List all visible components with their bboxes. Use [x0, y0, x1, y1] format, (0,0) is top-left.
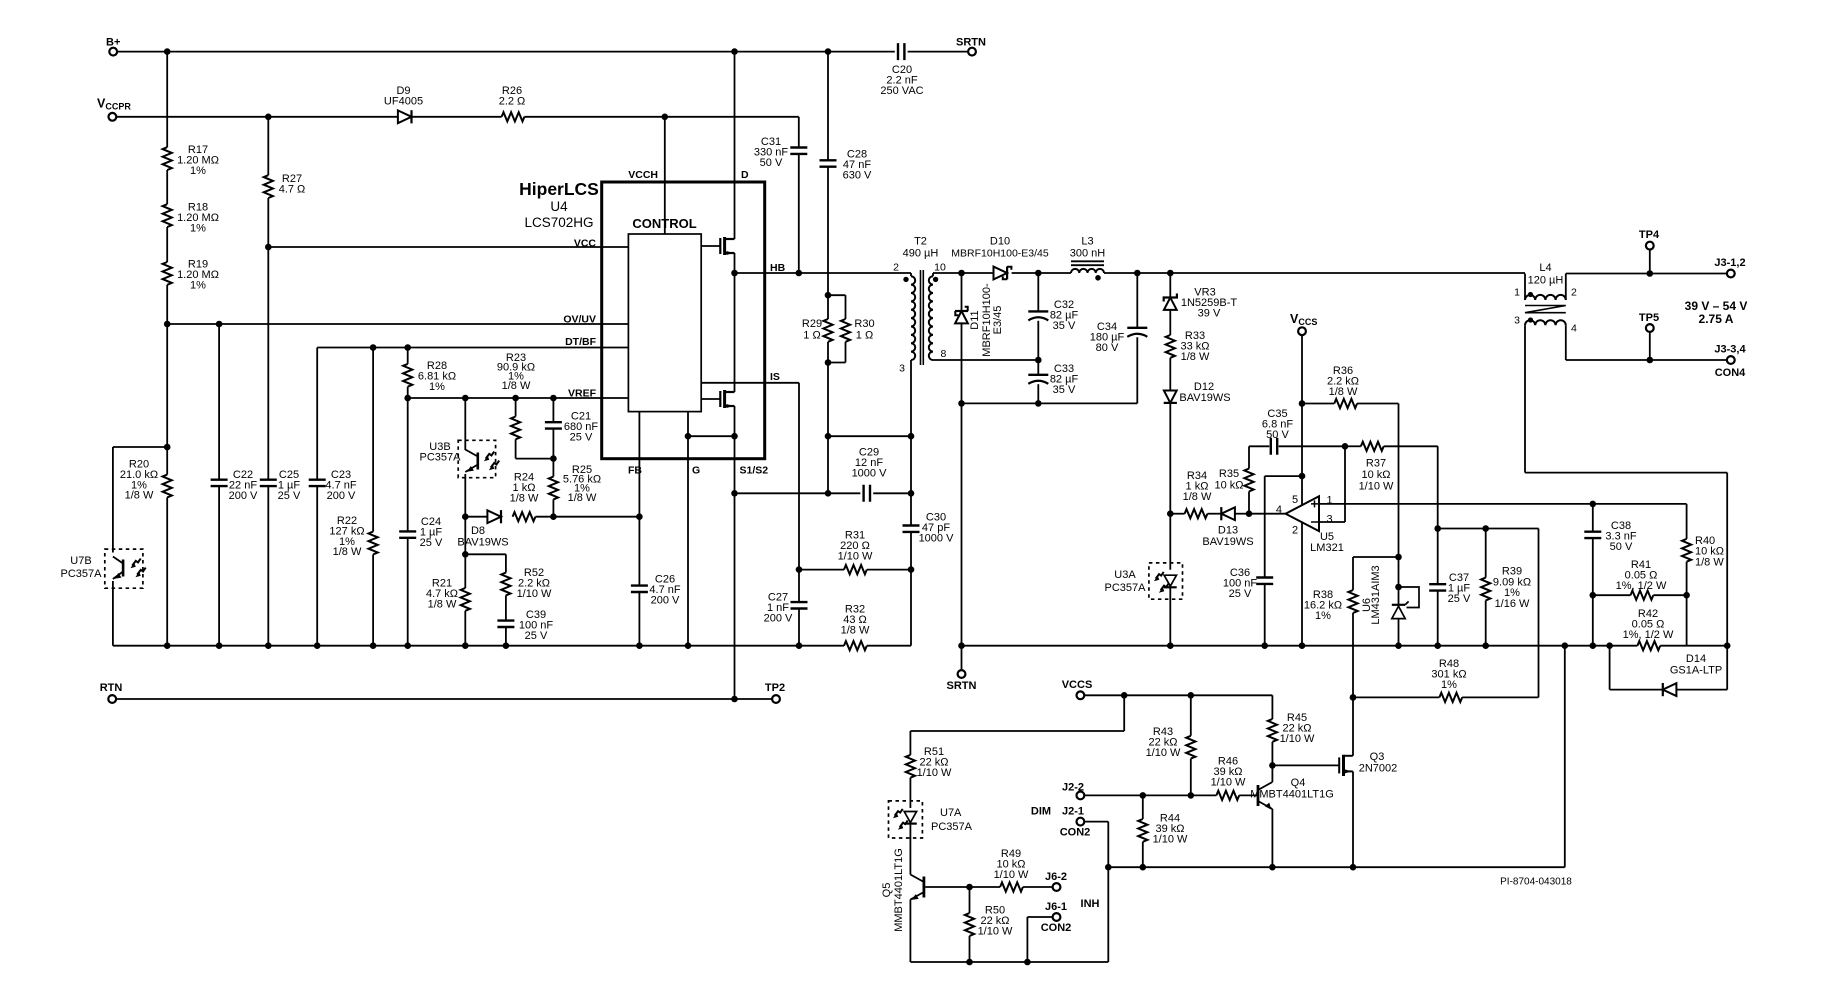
junction	[1350, 864, 1357, 871]
svg-text:2: 2	[1292, 525, 1298, 537]
wire	[1437, 529, 1439, 585]
svg-text:CON4: CON4	[1715, 367, 1746, 379]
junction	[462, 395, 469, 402]
wire	[970, 886, 1001, 888]
resistor R31	[844, 565, 867, 574]
wire	[1726, 646, 1728, 690]
wire op-amp output	[1249, 513, 1286, 515]
svg-text:J6-1: J6-1	[1045, 901, 1067, 913]
svg-text:3: 3	[899, 363, 905, 375]
svg-text:BAV19WS: BAV19WS	[1179, 392, 1230, 404]
U7B light arrows	[132, 559, 141, 566]
junction	[1590, 501, 1597, 508]
transistor Q4 MMBT4401LT1G	[1258, 782, 1272, 809]
capacitor C22	[211, 480, 228, 486]
wire VREF	[408, 397, 602, 399]
svg-text:1/10 W: 1/10 W	[838, 550, 873, 562]
svg-text:L4: L4	[1539, 262, 1551, 274]
wire	[1271, 742, 1273, 766]
svg-text:J2-1: J2-1	[1062, 806, 1084, 818]
terminal VCCPR	[109, 113, 117, 121]
wire	[867, 569, 911, 571]
wire	[909, 731, 911, 755]
junction	[796, 566, 803, 573]
resistor R25	[549, 477, 558, 500]
svg-text:T2: T2	[914, 236, 927, 248]
wire VCC stub	[602, 246, 629, 248]
wire C23 col	[316, 348, 318, 480]
svg-text:250 VAC: 250 VAC	[880, 85, 923, 97]
junction	[731, 696, 738, 703]
svg-text:R35: R35	[1219, 468, 1239, 480]
wire	[1123, 695, 1125, 731]
wire to FB	[553, 516, 639, 518]
junction	[462, 513, 469, 520]
wire	[1190, 695, 1192, 736]
wire	[505, 627, 507, 646]
junction	[265, 244, 272, 251]
wire	[464, 398, 466, 450]
LED U3A	[1164, 575, 1176, 586]
resistor R41	[1631, 591, 1654, 600]
wire G internal	[687, 412, 689, 459]
wire	[932, 359, 934, 361]
svg-text:G: G	[692, 465, 700, 477]
wire	[1609, 646, 1611, 690]
svg-text:2.2 Ω: 2.2 Ω	[499, 95, 526, 107]
diode D8	[487, 510, 501, 523]
svg-text:50 V: 50 V	[760, 157, 783, 169]
wire	[112, 581, 114, 646]
capacitor C23	[309, 480, 326, 486]
L4 polarity dots	[1528, 292, 1533, 297]
wire	[1169, 588, 1171, 646]
terminal J2-2	[1077, 792, 1085, 800]
wire	[407, 538, 409, 646]
junction	[265, 642, 272, 649]
wire	[1107, 867, 1109, 962]
transformer T2 primary winding	[911, 276, 915, 360]
junction	[958, 270, 965, 277]
wire	[218, 324, 220, 480]
wire	[910, 532, 912, 570]
junction	[1246, 510, 1253, 517]
svg-text:39 V – 54 V: 39 V – 54 V	[1685, 299, 1748, 313]
junction	[908, 433, 915, 440]
wire	[535, 516, 553, 518]
terminal TP2	[772, 695, 780, 703]
junction	[1395, 554, 1402, 561]
wire Q5 base	[925, 886, 969, 888]
svg-text:1%: 1%	[190, 279, 206, 291]
resistor R18	[163, 204, 172, 227]
svg-text:TP2: TP2	[765, 682, 785, 694]
wire	[112, 447, 114, 553]
svg-text:PC357A: PC357A	[931, 821, 973, 833]
svg-text:1/8 W: 1/8 W	[428, 598, 457, 610]
junction	[216, 321, 223, 328]
junction	[164, 321, 171, 328]
junction	[1724, 642, 1731, 649]
wire	[1264, 476, 1266, 577]
capacitor C31	[790, 148, 807, 154]
wire	[1592, 538, 1594, 595]
wire op-amp + input	[1319, 503, 1687, 505]
wire Q4 collector	[1271, 765, 1273, 782]
junction	[1395, 642, 1402, 649]
wire	[166, 285, 168, 324]
svg-text:1%: 1%	[190, 222, 206, 234]
wire	[910, 570, 912, 646]
junction	[636, 513, 643, 520]
wire	[910, 493, 912, 525]
junction	[503, 642, 510, 649]
resistor R19	[163, 262, 172, 285]
svg-text:R30: R30	[854, 318, 874, 330]
resistor R45	[1268, 719, 1277, 742]
svg-text:CON2: CON2	[1060, 827, 1091, 839]
resistor R26	[502, 112, 525, 121]
svg-text:MBRF10H100-E3/45: MBRF10H100-E3/45	[951, 248, 1049, 260]
diode D10	[994, 267, 1008, 280]
wire	[910, 436, 912, 493]
wire VCCPR	[117, 116, 398, 118]
junction	[1647, 270, 1654, 277]
resistor R20	[163, 475, 172, 498]
junction	[1350, 694, 1357, 701]
resistor R49	[1000, 882, 1023, 891]
junction	[685, 642, 692, 649]
wire	[873, 492, 911, 494]
junction	[164, 48, 171, 55]
wire L4 pin3 drop	[1524, 325, 1526, 472]
wire	[267, 198, 269, 247]
wire VCCH internal	[664, 182, 666, 234]
U3B light arrows	[486, 452, 495, 459]
junction	[1350, 694, 1357, 701]
wire	[932, 273, 934, 276]
junction	[825, 490, 832, 497]
wire FB internal	[638, 412, 640, 459]
wire	[552, 459, 554, 477]
capacitor C33	[1028, 374, 1048, 376]
junction	[685, 433, 692, 440]
junction	[662, 114, 669, 121]
svg-text:630 V: 630 V	[843, 169, 872, 181]
junction	[1269, 762, 1276, 769]
wire op-amp - input	[1319, 521, 1345, 523]
svg-text:1%, 1/2 W: 1%, 1/2 W	[1623, 629, 1674, 641]
wire pin8	[933, 359, 1038, 361]
wire lower gate	[701, 398, 720, 400]
wire	[1352, 613, 1354, 698]
junction	[731, 48, 738, 55]
resistor R28	[403, 364, 412, 387]
svg-text:Q5: Q5	[881, 883, 893, 898]
svg-text:1/8 W: 1/8 W	[1181, 351, 1210, 363]
capacitor C25	[260, 480, 277, 486]
junction	[1606, 642, 1613, 649]
wire	[372, 554, 374, 645]
wire op-amp gnd pin2	[1301, 522, 1303, 646]
wire	[407, 348, 409, 364]
junction	[908, 566, 915, 573]
junction	[1683, 592, 1690, 599]
wire	[798, 570, 800, 603]
wire Q3 gate	[1272, 764, 1339, 766]
wire	[735, 492, 861, 494]
optocoupler box U3A	[1149, 563, 1183, 599]
terminal SRTN	[958, 670, 966, 678]
terminal J3-3,4	[1727, 356, 1735, 364]
junction	[550, 455, 557, 462]
wire	[969, 936, 971, 962]
wire VREF stub	[602, 397, 629, 399]
diode D9	[398, 110, 412, 123]
capacitor C35	[1271, 438, 1277, 455]
junction	[908, 490, 915, 497]
junction	[1035, 357, 1042, 364]
wire	[961, 323, 963, 403]
wire	[407, 387, 409, 398]
svg-text:4: 4	[1571, 323, 1577, 335]
junction	[1590, 592, 1597, 599]
resistor R43	[1186, 736, 1195, 759]
transistor Q5 MMBT4401LT1G	[910, 875, 924, 900]
svg-text:LM321: LM321	[1310, 542, 1344, 554]
svg-text:S1/S2: S1/S2	[740, 465, 769, 477]
svg-text:1 Ω: 1 Ω	[856, 330, 873, 342]
wire	[218, 486, 220, 646]
svg-text:1/8 W: 1/8 W	[1329, 386, 1358, 398]
wire C31 top	[798, 117, 800, 148]
wire Q4 emitter	[1271, 809, 1273, 867]
wire L4 pin1 lead	[1524, 274, 1526, 301]
terminal J3-1,2	[1727, 270, 1735, 278]
svg-text:1000 V: 1000 V	[919, 532, 955, 544]
svg-text:10 kΩ: 10 kΩ	[1361, 469, 1390, 481]
svg-text:25 V: 25 V	[525, 630, 548, 642]
svg-text:25 V: 25 V	[1448, 593, 1471, 605]
svg-text:3: 3	[1327, 514, 1333, 526]
wire U6 cathode column	[1398, 404, 1400, 588]
junction	[1140, 864, 1147, 871]
junction	[796, 642, 803, 649]
wire	[845, 342, 847, 363]
wire Vccs	[1301, 335, 1303, 403]
resistor R48	[1439, 693, 1462, 702]
junction	[825, 359, 832, 366]
wire	[1037, 273, 1039, 311]
capacitor C21	[545, 422, 562, 428]
junction	[1167, 510, 1174, 517]
terminal TP4	[1646, 242, 1654, 250]
wire	[1345, 445, 1361, 447]
svg-text:U7A: U7A	[940, 807, 962, 819]
wire	[933, 272, 962, 274]
svg-text:1/10 W: 1/10 W	[1153, 833, 1188, 845]
wire Vccs bus	[1085, 694, 1273, 696]
wire	[1726, 473, 1728, 646]
svg-text:RTN: RTN	[100, 682, 123, 694]
wire	[166, 170, 168, 204]
svg-text:50 V: 50 V	[1610, 541, 1633, 553]
resistor R17	[163, 147, 172, 170]
wire	[166, 52, 168, 148]
wire	[1593, 594, 1631, 596]
svg-text:D13: D13	[1218, 525, 1238, 537]
wire	[465, 516, 487, 518]
MOSFET lower half-bridge U4	[720, 390, 734, 408]
resistor R38	[1348, 590, 1357, 613]
wire	[969, 887, 971, 913]
wire secondary return rail	[962, 645, 1638, 647]
capacitor C38	[1584, 532, 1601, 538]
svg-text:GS1A-LTP: GS1A-LTP	[1670, 665, 1722, 677]
junction	[550, 395, 557, 402]
svg-text:25 V: 25 V	[420, 537, 443, 549]
svg-text:1%: 1%	[1315, 610, 1331, 622]
wire VCCH drop	[664, 117, 666, 182]
junction	[1434, 525, 1441, 532]
L3 polarity dot	[1095, 275, 1101, 281]
svg-text:D10: D10	[990, 236, 1010, 248]
resistor R44	[1138, 819, 1147, 842]
wire	[1136, 337, 1138, 403]
svg-text:VCCS: VCCS	[1062, 679, 1093, 691]
wire	[638, 592, 640, 646]
svg-text:1/10 W: 1/10 W	[517, 588, 552, 600]
junction	[958, 400, 965, 407]
wire	[166, 447, 168, 475]
wire	[464, 474, 466, 517]
capacitor C27	[791, 602, 808, 608]
svg-text:D8: D8	[471, 525, 485, 537]
wire	[412, 116, 502, 118]
resistor R36	[1334, 399, 1357, 408]
wire	[1012, 272, 1071, 274]
junction	[1482, 642, 1489, 649]
wire G tie	[688, 435, 735, 437]
wire output bottom	[1566, 359, 1727, 361]
junction	[1590, 642, 1597, 649]
wire C25 col	[267, 247, 269, 480]
wire	[1169, 310, 1171, 335]
wire	[552, 429, 554, 459]
wire	[1384, 445, 1438, 447]
wire	[1357, 403, 1398, 405]
wire	[1676, 689, 1727, 691]
wire	[1686, 595, 1688, 646]
junction	[1269, 864, 1276, 871]
svg-text:TP5: TP5	[1639, 312, 1659, 324]
svg-text:1 Ω: 1 Ω	[803, 330, 820, 342]
junction	[265, 114, 272, 121]
MOSFET Q3 2N7002	[1339, 755, 1353, 776]
transformer T2 core	[921, 270, 924, 365]
svg-text:1/8 W: 1/8 W	[510, 492, 539, 504]
svg-text:39 V: 39 V	[1198, 307, 1221, 319]
wire	[961, 273, 963, 311]
wire	[827, 436, 829, 493]
transformer T2 secondary winding	[929, 276, 933, 360]
svg-text:J3-1,2: J3-1,2	[1714, 257, 1745, 269]
wire	[845, 295, 847, 319]
junction	[370, 344, 377, 351]
U3A light arrows	[1156, 572, 1164, 579]
svg-text:1000 V: 1000 V	[852, 467, 888, 479]
svg-text:J2-2: J2-2	[1062, 782, 1084, 794]
junction	[825, 292, 832, 299]
wire	[1653, 594, 1686, 596]
svg-text:1%, 1/2 W: 1%, 1/2 W	[1616, 580, 1667, 592]
junction	[966, 959, 973, 966]
resistor R24	[513, 512, 536, 521]
svg-text:MMBT4401LT1G: MMBT4401LT1G	[893, 848, 905, 932]
wire	[1265, 475, 1302, 477]
wire	[372, 348, 374, 532]
svg-text:DT/BF: DT/BF	[565, 336, 596, 348]
wire	[910, 730, 1124, 732]
wire	[524, 116, 798, 118]
wire J2-2	[1085, 794, 1217, 796]
svg-text:2: 2	[1571, 287, 1577, 299]
svg-text:4.7 Ω: 4.7 Ω	[279, 183, 306, 195]
resistor R30	[841, 319, 850, 342]
wire	[799, 569, 844, 571]
terminal J2-1	[1077, 818, 1085, 826]
svg-text:1/8 W: 1/8 W	[568, 492, 597, 504]
svg-text:LCS702HG: LCS702HG	[524, 215, 593, 230]
wire upper drain	[734, 182, 736, 239]
junction	[1299, 473, 1306, 480]
junction	[1261, 642, 1268, 649]
resistor R37	[1361, 442, 1384, 451]
wire to T2 pin3	[828, 435, 911, 437]
inductor L3	[1071, 269, 1104, 273]
junction	[1134, 270, 1141, 277]
wire	[515, 439, 517, 458]
svg-text:490 µH: 490 µH	[903, 248, 939, 260]
wire	[464, 517, 466, 555]
junction	[731, 490, 738, 497]
svg-text:1/10 W: 1/10 W	[917, 767, 952, 779]
svg-text:Q3: Q3	[1370, 751, 1385, 763]
svg-text:2: 2	[893, 262, 899, 274]
optocoupler box U3B	[458, 440, 495, 477]
T2 polarity dot primary	[903, 277, 908, 282]
wire	[166, 227, 168, 262]
svg-text:D14: D14	[1686, 653, 1706, 665]
wire	[166, 497, 168, 645]
wire	[827, 363, 829, 437]
svg-text:200 V: 200 V	[327, 490, 356, 502]
wire	[1169, 358, 1171, 391]
junction	[1121, 692, 1128, 699]
junction	[512, 395, 519, 402]
junction	[731, 433, 738, 440]
terminal J6-1	[1053, 913, 1061, 921]
wire	[166, 324, 168, 447]
wire IS	[765, 382, 799, 384]
capacitor C37	[1429, 584, 1446, 590]
svg-text:3: 3	[1514, 315, 1520, 327]
junction	[1299, 642, 1306, 649]
svg-text:50 V: 50 V	[1266, 429, 1289, 441]
svg-text:1%: 1%	[190, 165, 206, 177]
wire upper gate	[701, 245, 720, 247]
wire U7B collector tie	[113, 446, 167, 448]
